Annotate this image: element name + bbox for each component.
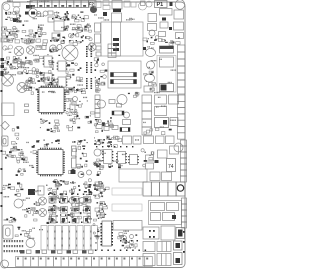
via row under J1 xyxy=(52,18,84,19)
diode D210 xyxy=(71,170,76,174)
relay K14 outline xyxy=(112,188,142,195)
resistor R212 xyxy=(123,120,131,125)
capacitor C31 xyxy=(147,61,155,69)
relay K1 xyxy=(174,22,184,30)
connector J3 shroud xyxy=(101,22,143,56)
via row top mid xyxy=(50,40,83,41)
diode D201 xyxy=(26,5,32,9)
right edge tick 2 xyxy=(183,241,185,243)
component cluster (dense rows mid) xyxy=(49,196,92,211)
transformer T4 xyxy=(161,226,175,240)
relay K11 xyxy=(143,254,155,266)
connector J10 pin marks xyxy=(17,258,148,260)
resistor R220 xyxy=(170,146,179,154)
resistor R224 xyxy=(150,172,160,181)
transformer T3 xyxy=(143,227,159,239)
resistor R257 xyxy=(52,33,60,39)
component cluster (silk text row) xyxy=(64,25,92,33)
via row above bottom connector xyxy=(95,250,146,252)
resistor R254 xyxy=(25,110,29,113)
relay K5 xyxy=(133,136,141,144)
component cluster (center vias) xyxy=(108,164,121,168)
relay K9 xyxy=(143,242,155,252)
diode pair D223 xyxy=(67,250,78,254)
resistor R232 xyxy=(151,213,161,221)
capacitor C74 xyxy=(174,253,183,265)
op-amp U14 xyxy=(43,56,54,67)
component cluster (dense rows lower) xyxy=(47,212,92,224)
resistor R222 xyxy=(146,155,154,161)
resistor R221 xyxy=(158,150,168,158)
switch S1 xyxy=(141,1,146,6)
module M3 outline xyxy=(119,169,147,182)
resistor row R270-R275 xyxy=(8,39,48,43)
silkscreen text right of U1 xyxy=(67,97,87,119)
capacitor C210 xyxy=(149,30,155,36)
component cluster (left of U2) xyxy=(12,145,36,176)
component cluster (near TP1) xyxy=(11,126,19,144)
connector J1 header row xyxy=(30,1,88,8)
component cluster (passives near C22) xyxy=(48,47,61,56)
diode D204 xyxy=(31,12,35,15)
connector J4 right ladder upper xyxy=(178,45,186,94)
resistor R262 xyxy=(103,6,110,10)
capacitor C52 xyxy=(94,149,101,156)
silkscreen text center lower xyxy=(100,139,139,166)
capacitor C208 xyxy=(95,23,101,32)
diode D203 xyxy=(25,12,29,15)
resistor R250 xyxy=(2,27,7,31)
left edge tick 1 xyxy=(1,150,3,152)
right edge tick 3 xyxy=(183,251,185,253)
resistor R252 xyxy=(1,38,7,42)
capacitor C43 xyxy=(124,112,130,118)
capacitor C207 xyxy=(174,10,184,19)
component cluster (passives analog left) xyxy=(1,56,45,75)
voltage regulator VR1 xyxy=(148,14,157,22)
silkscreen text dense band xyxy=(49,182,88,217)
connector J2 lower pins xyxy=(108,44,116,58)
svg-text:F2: F2 xyxy=(89,2,95,7)
resistor column R280-R285 xyxy=(95,182,105,218)
silkscreen text top edge xyxy=(7,0,49,2)
resistor R233 xyxy=(163,213,175,221)
resistor R263 xyxy=(96,46,101,50)
capacitor row C63-C66 xyxy=(49,198,85,204)
op-amp U23 xyxy=(102,150,113,164)
via row dense band 2 xyxy=(48,210,90,212)
resistor R223 xyxy=(146,163,154,169)
component cluster (below U1) xyxy=(40,119,60,132)
resistor R213 xyxy=(96,125,102,129)
resistor R225 xyxy=(162,172,172,181)
capacitor C55 xyxy=(166,136,175,144)
diode pair D221 xyxy=(36,250,47,254)
diode D213 xyxy=(172,215,176,219)
component cluster (right band small) xyxy=(143,36,173,46)
resistor R201 xyxy=(13,3,20,7)
op-amp U24 xyxy=(116,152,127,164)
diode D205 xyxy=(162,18,166,21)
relay K2 xyxy=(160,57,174,67)
connector J7 pin column xyxy=(95,95,100,118)
component cluster (right small parts) xyxy=(144,128,172,135)
capacitor C29 xyxy=(9,45,13,49)
silkscreen text row 3 xyxy=(4,250,24,252)
electrolytic capacitor C61 xyxy=(39,197,47,205)
resistor R214 xyxy=(104,127,109,131)
capacitor C28 xyxy=(3,46,7,50)
resistor R210 xyxy=(109,100,115,104)
resistor R261 xyxy=(103,1,109,6)
diode D234 xyxy=(103,12,107,16)
resistor R211 xyxy=(117,104,122,108)
electrolytic capacitor C20 xyxy=(14,46,24,56)
diode D233 xyxy=(143,47,146,50)
connector J8 left column xyxy=(142,95,152,135)
silkscreen text bottom center xyxy=(122,231,132,249)
op-amp U16 xyxy=(43,73,54,83)
connector J1 pin marks xyxy=(32,5,86,7)
transistor array row 1 xyxy=(49,197,91,204)
resistor R253 xyxy=(25,104,29,107)
diode D231 xyxy=(1,65,5,68)
component cluster (vias mid) xyxy=(106,117,114,128)
resistor R241 xyxy=(42,46,46,50)
via pair bottom right 2 xyxy=(149,236,155,238)
resistor R230 xyxy=(151,203,165,211)
diode pair D222 xyxy=(51,250,62,254)
diode D212 xyxy=(28,189,35,195)
capacitor C204 xyxy=(175,0,185,9)
relay K4 xyxy=(123,136,132,144)
capacitor C73 xyxy=(174,241,183,250)
transformer T2 xyxy=(160,84,174,92)
resistor R202 xyxy=(160,9,173,16)
component cluster (left lower) xyxy=(25,201,40,221)
capacitor C72 xyxy=(176,228,185,239)
silkscreen text lower left xyxy=(3,185,41,221)
silkscreen text near J2 xyxy=(94,14,109,20)
silkscreen text bottom left xyxy=(22,228,43,239)
svg-text:P1: P1 xyxy=(157,2,164,8)
board outline xyxy=(2,2,185,268)
component cluster (right lower parts) xyxy=(141,149,154,167)
component cluster (center band upper) xyxy=(94,136,122,148)
component cluster (center column lower) xyxy=(94,203,108,221)
inductor L2 xyxy=(72,146,77,168)
resistor R256 xyxy=(48,17,54,22)
right edge tick 1 xyxy=(183,231,185,233)
silkscreen text left of U2 xyxy=(17,142,33,170)
capacitor C56 xyxy=(174,143,183,152)
component cluster (dense rows upper) xyxy=(46,179,92,196)
resistor R251 xyxy=(2,33,6,36)
component cluster (left column lower) xyxy=(94,160,102,176)
silkscreen text right band xyxy=(147,46,176,93)
svg-text:74: 74 xyxy=(168,164,174,170)
relay K12 xyxy=(157,254,171,266)
connector J2 key xyxy=(113,9,121,13)
connector J2 body xyxy=(112,13,122,22)
capacitor C60 xyxy=(14,199,23,208)
resistor network RN1 xyxy=(111,73,137,77)
component cluster (passives left band) xyxy=(4,24,47,45)
test point TP1 diamond xyxy=(1,121,9,129)
component cluster (between SOICs left) xyxy=(47,60,58,88)
resistor network RN2 xyxy=(111,80,137,84)
resistor R215 xyxy=(112,126,118,130)
electrolytic capacitor C26 xyxy=(17,83,27,93)
silkscreen text above U1 xyxy=(42,91,56,93)
capacitor C32 xyxy=(145,74,155,82)
resistor R260 xyxy=(95,1,102,8)
silkscreen text analog lower xyxy=(30,80,83,94)
connector J4 right ladder mid xyxy=(178,95,186,139)
electrolytic capacitor C27 xyxy=(88,43,96,51)
module M1 outline xyxy=(108,61,141,88)
capacitor C71 xyxy=(1,260,9,268)
capacitor C212 xyxy=(29,9,38,18)
resistor R203 xyxy=(160,22,168,28)
connector J5 body xyxy=(2,103,15,116)
component cluster (left of U30) xyxy=(93,224,102,244)
component cluster (mid small parts) xyxy=(94,119,105,133)
connector J2 pin block 2 xyxy=(113,43,119,46)
component cluster (center column upper) xyxy=(93,181,109,197)
diode pair D220 xyxy=(20,250,31,254)
capacitor C41 xyxy=(117,95,127,105)
op-amp U12 pin strip xyxy=(86,62,92,73)
silkscreen text row 2 xyxy=(4,245,24,247)
connector J4 right ladder bottom xyxy=(182,198,187,228)
op-amp U10 xyxy=(54,21,64,31)
microcontroller U1 xyxy=(37,86,66,115)
component cluster (between SOICs right) xyxy=(66,62,83,80)
component cluster (left bottom edge) xyxy=(6,217,16,223)
silkscreen text right of J2 xyxy=(126,18,134,21)
capacitor C30 xyxy=(146,49,156,57)
fuse F2 outline xyxy=(89,1,97,8)
transistor Q2 xyxy=(38,186,44,195)
component cluster (bottom center parts) xyxy=(118,233,137,249)
resistor network RN4 xyxy=(120,128,130,132)
IC U26 with label xyxy=(167,159,176,172)
silkscreen text row 1 xyxy=(4,240,24,242)
diode D202 xyxy=(170,2,173,6)
electrolytic capacitor C62 xyxy=(39,209,47,217)
capacitor C23 xyxy=(50,45,57,52)
left edge tick 4 xyxy=(1,205,3,207)
component cluster (passives mid band) xyxy=(51,33,93,45)
connector J2 body top xyxy=(112,1,122,10)
resistor R242 xyxy=(144,86,153,92)
relay K15 outline xyxy=(112,204,142,211)
optocoupler U21 xyxy=(169,95,179,104)
capacitor C40 xyxy=(73,97,78,102)
component cluster (right top passives) xyxy=(146,37,180,44)
component cluster (right mid passives) xyxy=(144,71,157,91)
capacitor C211 xyxy=(176,33,184,39)
op-amp U17 xyxy=(57,77,68,87)
socket XU1 cell row xyxy=(41,226,97,251)
capacitor C24 xyxy=(57,45,62,50)
capacitor C205 xyxy=(36,12,41,17)
component cluster (small passives top-mid) xyxy=(54,11,88,22)
diode D207 xyxy=(13,18,18,22)
transistor array row 2 xyxy=(49,207,91,214)
capacitor C51 xyxy=(87,170,92,175)
DIP IC U30 xyxy=(101,221,114,246)
via pair bottom right 1 xyxy=(149,230,155,232)
relay K13 xyxy=(113,221,142,231)
connector J4 right ladder lower xyxy=(181,140,187,182)
silkscreen text mid xyxy=(61,24,89,31)
diode D206 xyxy=(169,27,172,30)
connector J10 bottom edge row xyxy=(16,257,153,267)
diode D230 xyxy=(1,58,5,61)
electrolytic capacitor C21 xyxy=(26,46,34,54)
resistor R231 xyxy=(167,203,179,211)
left edge tick 3 xyxy=(1,192,3,194)
connector J2 pin block 3 xyxy=(113,48,119,51)
capacitor C201 xyxy=(13,7,19,13)
silkscreen text analog left xyxy=(5,46,41,75)
component cluster (small passives top-left) xyxy=(5,11,22,22)
capacitor C213 xyxy=(124,1,130,7)
component cluster (top of mid) xyxy=(128,92,139,97)
capacitor C42 xyxy=(98,100,106,108)
capacitor C215 xyxy=(139,2,147,10)
mounting hole H1 xyxy=(3,4,10,11)
diode D211 xyxy=(155,160,159,163)
electrolytic capacitor C22 xyxy=(62,45,78,61)
resistor R264 xyxy=(96,52,101,56)
capacitor C214 xyxy=(131,2,136,7)
left edge tick 2 xyxy=(1,168,3,170)
via row dense band 3 xyxy=(50,222,89,224)
connector J2 pin strip xyxy=(112,22,121,56)
component cluster (passives analog bottom) xyxy=(61,87,86,95)
op-amp U13 pin strip xyxy=(86,78,92,89)
resistor R255 xyxy=(48,11,53,15)
relay K3 xyxy=(155,118,169,128)
capacitor C209 xyxy=(95,34,101,43)
optocoupler U20 xyxy=(155,95,167,104)
resistor R240 xyxy=(36,46,41,50)
capacitor C80 xyxy=(122,236,127,241)
component cluster (passives right of U1) xyxy=(66,98,95,131)
component cluster (right of U2) xyxy=(68,140,88,175)
microcontroller U2 xyxy=(36,148,65,177)
resistor network RN3 xyxy=(112,111,124,115)
via row center band xyxy=(96,146,133,147)
capacitor C54 xyxy=(156,136,165,144)
op-amp U15 xyxy=(57,61,68,71)
component cluster (above U2) xyxy=(36,140,60,147)
electrolytic capacitor C25 xyxy=(2,74,14,86)
capacitor C44 xyxy=(170,118,178,126)
fuse F1 outline xyxy=(155,1,168,8)
crystal Y1 xyxy=(148,24,157,31)
op-amp U11 pin strip xyxy=(86,46,92,57)
component cluster (passives analog lower) xyxy=(24,75,59,94)
silkscreen text right block xyxy=(143,97,176,128)
connector J6 jack xyxy=(2,136,9,146)
inductor L1 xyxy=(90,6,97,13)
capacitor C53 xyxy=(144,136,154,144)
capacitor C206 xyxy=(43,11,48,16)
silkscreen text left band xyxy=(7,25,43,42)
transistor Q1 xyxy=(70,104,75,112)
capacitor C67 xyxy=(176,182,185,196)
module M2 outline xyxy=(157,56,176,93)
component cluster (below J6) xyxy=(2,148,20,160)
connector J2 pin block 1 xyxy=(113,38,119,41)
capacitor C81 xyxy=(130,235,134,239)
capacitor C203 xyxy=(146,1,152,7)
optocoupler U22 xyxy=(155,107,167,116)
diode pair D224 xyxy=(82,250,93,254)
relay bank K6-K8 xyxy=(143,182,176,196)
component cluster (left upper) xyxy=(2,182,23,196)
component cluster (passives mid column) xyxy=(94,58,107,93)
left edge tick 5 xyxy=(1,90,3,92)
connector J9 jack xyxy=(3,225,13,239)
capacitor C50 xyxy=(78,172,84,178)
capacitor C70 xyxy=(26,239,35,248)
transformer T1 xyxy=(160,46,174,53)
silkscreen text top-left xyxy=(7,13,44,22)
module M4 outline xyxy=(149,201,182,225)
relay K10 xyxy=(157,242,171,252)
resistor R204 xyxy=(159,32,166,37)
socket XU1 contacts xyxy=(47,231,91,247)
component cluster (bottom left parts) xyxy=(15,227,31,238)
component cluster (center small parts) xyxy=(93,159,104,169)
diode D232 xyxy=(1,71,4,76)
op-amp U25 xyxy=(128,155,139,165)
via row bottom center xyxy=(120,240,138,242)
via row dense band 1 xyxy=(48,194,90,196)
transistor array row 3 xyxy=(49,217,91,224)
